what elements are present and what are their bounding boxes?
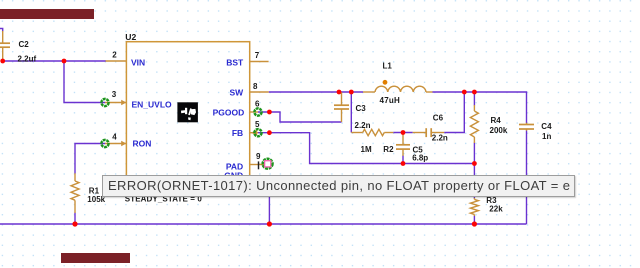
svg-text:200k: 200k [490,126,508,135]
svg-text:1M: 1M [361,145,372,154]
svg-text:9: 9 [256,152,261,161]
svg-text:7: 7 [255,51,260,60]
svg-text:6: 6 [255,100,260,109]
svg-text:RON: RON [133,139,152,149]
svg-text:1n: 1n [542,132,551,141]
svg-text:EN_UVLO: EN_UVLO [132,100,173,110]
svg-text:22k: 22k [489,205,503,214]
svg-text:C2: C2 [19,40,30,49]
svg-text:PGOOD: PGOOD [213,108,245,118]
svg-text:L1: L1 [383,62,393,71]
svg-text:2.2uf: 2.2uf [18,54,37,63]
svg-text:2.2n: 2.2n [355,121,371,130]
svg-text:4: 4 [112,133,117,142]
svg-text:47uH: 47uH [380,96,401,105]
svg-text:R2: R2 [383,145,394,154]
svg-text:5: 5 [255,120,260,129]
svg-text:BST: BST [226,57,244,67]
svg-text:105k: 105k [87,195,105,204]
svg-text:FB: FB [232,128,243,138]
svg-text:C3: C3 [356,104,367,113]
svg-text:R4: R4 [491,116,502,125]
svg-text:VIN: VIN [131,58,145,68]
svg-text:C4: C4 [541,122,552,131]
svg-text:2.2n: 2.2n [432,134,448,143]
svg-text:8: 8 [253,82,258,91]
svg-text:U2: U2 [125,32,136,42]
svg-text:C6: C6 [433,114,444,123]
svg-text:2: 2 [112,51,117,60]
svg-text:6.8p: 6.8p [412,153,428,162]
svg-text:SW: SW [229,87,244,97]
svg-text:R3: R3 [486,196,497,205]
svg-text:3: 3 [112,90,117,99]
